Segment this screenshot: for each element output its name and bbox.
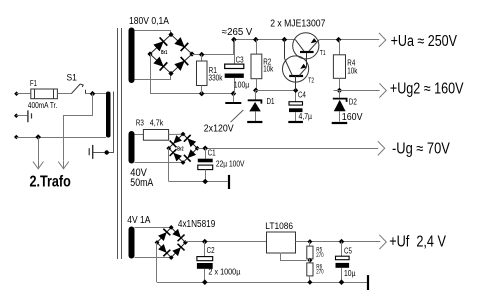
node C2 top [202,239,208,245]
wire 40V bottom to bridge [135,162,184,164]
wire R3 to bridge [169,133,183,135]
svg-text:2 x MJE13007: 2 x MJE13007 [270,19,326,30]
wire [16,137,106,139]
svg-text:C4: C4 [298,90,306,99]
ground chassis symbol [28,110,32,122]
resistor R2 [251,40,274,91]
node C5 bottom [339,279,345,285]
node mains terminal L [14,91,19,96]
capacitor C5 [336,242,356,283]
node C2 bottom [202,279,208,285]
node Ug2 [337,88,343,94]
wire ground rail [157,282,367,284]
node arrow junction [35,134,41,140]
transformer primary winding [106,92,111,138]
bridge rectifier Br1 [147,32,194,76]
svg-text:270: 270 [316,253,324,259]
node T2 collector riser [282,37,288,43]
wire Br1 plus rail [192,54,234,56]
svg-text:S1: S1 [67,73,77,84]
wire arrow 1 to mains [33,137,44,169]
zener diode D2 [332,91,363,124]
resistor R4 [333,40,358,91]
wire bridge minus drop [156,243,158,283]
bridge rectifier 4x1N5819 [155,225,188,260]
svg-text:160V: 160V [342,112,363,123]
svg-text:4,7µ: 4,7µ [299,111,313,121]
svg-text:F1: F1 [30,79,37,88]
wire 4V bottom to bridge [135,257,172,259]
wire 180V bottom to bridge [135,74,171,80]
wire riser to 265V bus [233,40,235,55]
node bridge left [155,240,160,245]
node base wire left [253,88,259,94]
node adj junction [307,258,312,263]
label 265V [222,27,253,38]
node C3 riser [231,37,237,43]
svg-text:2x120V: 2x120V [204,124,234,135]
node Br2 top [181,132,186,137]
capacitor C1 [198,148,245,181]
transformer secondary winding 4V [129,227,135,259]
wire base node [256,90,296,92]
bridge rectifier Br2 [166,132,199,165]
transformer core [118,28,122,259]
wire arrow 2 to mains [58,161,69,169]
node R1 top [199,52,205,58]
wire [17,93,31,95]
ground [225,94,241,103]
svg-text:+Ug2 ≈ 160V: +Ug2 ≈ 160V [390,80,464,97]
node R5 top [307,239,312,244]
node mains terminal N [14,135,19,140]
transistor T1 [293,33,326,59]
svg-text:270: 270 [316,270,324,276]
node R2 top [253,37,259,43]
wire 265V bus [234,39,295,41]
wire +Ua output [319,39,379,41]
wire +Ug2 output [334,90,380,92]
node Br1 bottom [168,71,173,76]
node C5 top [339,239,345,245]
transformer shield [89,92,113,159]
wire S1 drop to mains arrow [64,94,93,161]
capacitor C2 [197,242,241,283]
node bridge right [183,240,188,245]
label 4V 1A [127,214,150,226]
node -Ug arrow [378,140,451,157]
ground [367,275,369,290]
resistor R1 [197,55,224,94]
svg-text:400mA Tr.: 400mA Tr. [28,101,58,110]
node R1 bottom [199,91,205,97]
transformer secondary winding 40V [129,131,135,164]
node switch junction [90,91,96,97]
node Br2 bottom [181,160,186,165]
node R4 top [336,37,342,43]
svg-text:C3: C3 [236,56,244,65]
node +Uf arrow [379,234,446,251]
node mains terminal PE [14,113,19,118]
wire regulator output [296,241,381,243]
transformer secondary winding 180V [129,28,135,84]
node +Ug2 arrow [379,80,464,97]
wire bridge plus to regulator [185,241,266,243]
label 2 x MJE13007 [270,19,326,30]
node Br2 right [195,146,200,151]
wire 40V top to R3 [135,134,144,136]
svg-text:Br1: Br1 [161,50,167,56]
svg-text:10k: 10k [263,65,274,74]
regulator LT1086 [265,221,295,253]
svg-text:+Ua ≈ 250V: +Ua ≈ 250V [391,33,458,50]
svg-text:2 x 1000µ: 2 x 1000µ [208,266,240,276]
svg-text:T1: T1 [320,50,326,57]
resistor R3 [136,119,169,141]
svg-text:50mA: 50mA [130,177,154,189]
zener diode D1 [247,90,275,122]
svg-text:10k: 10k [347,66,358,75]
svg-text:100µ: 100µ [234,80,250,90]
svg-text:10µ: 10µ [344,268,356,278]
svg-text:C1: C1 [208,149,216,158]
svg-text:2.Trafo: 2.Trafo [30,174,71,191]
svg-text:330k: 330k [209,73,224,82]
svg-text:C2: C2 [207,246,215,255]
svg-text:T2: T2 [308,77,314,84]
svg-text:180V 0,1A: 180V 0,1A [129,16,169,27]
svg-text:LT1086: LT1086 [265,221,293,232]
wire return rail [169,181,228,183]
capacitor C4 [288,90,312,122]
node C1 top [202,145,208,151]
resistor R6 [307,259,324,282]
capacitor C3 [225,40,250,94]
svg-text:+Uf 2,4 V: +Uf 2,4 V [389,234,446,251]
node R6 bottom [307,280,312,285]
label 2x120V with pointer [204,110,244,135]
node Br1 left [147,51,152,56]
node bridge bottom [169,255,174,260]
label 180V 0,1A [129,16,169,27]
svg-text:22µ 100V: 22µ 100V [216,159,245,169]
node C1 bottom [202,179,208,185]
node +Ua arrow [379,33,458,50]
svg-text:D2: D2 [349,97,357,106]
wire T2 collector [284,40,286,59]
node Br2 left [166,146,171,151]
label 400mA Tr. [28,101,58,110]
wire -Ug output [197,148,378,150]
svg-text:R3: R3 [136,119,144,128]
switch S1 [67,73,86,94]
svg-text:D1: D1 [267,97,275,106]
label 4x1N5819 [178,219,216,230]
node T2 base [293,88,298,93]
wire ground bus [150,93,233,95]
wire Br2 plus drop [168,148,170,181]
node Br1 top [168,32,173,37]
transistor T2 [283,56,315,91]
node Br1 right [189,51,194,56]
wire 180V top to bridge [135,31,171,35]
label 40V 50mA [130,167,154,189]
ground [228,175,230,189]
svg-text:C5: C5 [344,246,352,255]
wire Br1 minus to ground bus [150,54,152,94]
wire [16,115,27,117]
node bridge top [169,225,174,230]
wire T2 emitter to T1 base [306,52,308,68]
node C3 bottom [231,91,237,97]
fuse F1 [30,79,57,99]
svg-text:≈265 V: ≈265 V [222,27,253,38]
svg-text:4,7k: 4,7k [150,119,164,128]
svg-text:Br2: Br2 [177,147,183,153]
resistor R5 [307,242,324,260]
svg-text:4V 1A: 4V 1A [127,214,150,226]
wire regulator adjust [281,253,307,261]
svg-text:-Ug ≈ 70V: -Ug ≈ 70V [392,140,450,157]
wire [57,93,71,95]
svg-text:4x1N5819: 4x1N5819 [178,219,216,230]
label 2.Trafo [30,174,71,191]
wire 4V top to bridge [135,227,172,229]
wire [86,93,106,95]
